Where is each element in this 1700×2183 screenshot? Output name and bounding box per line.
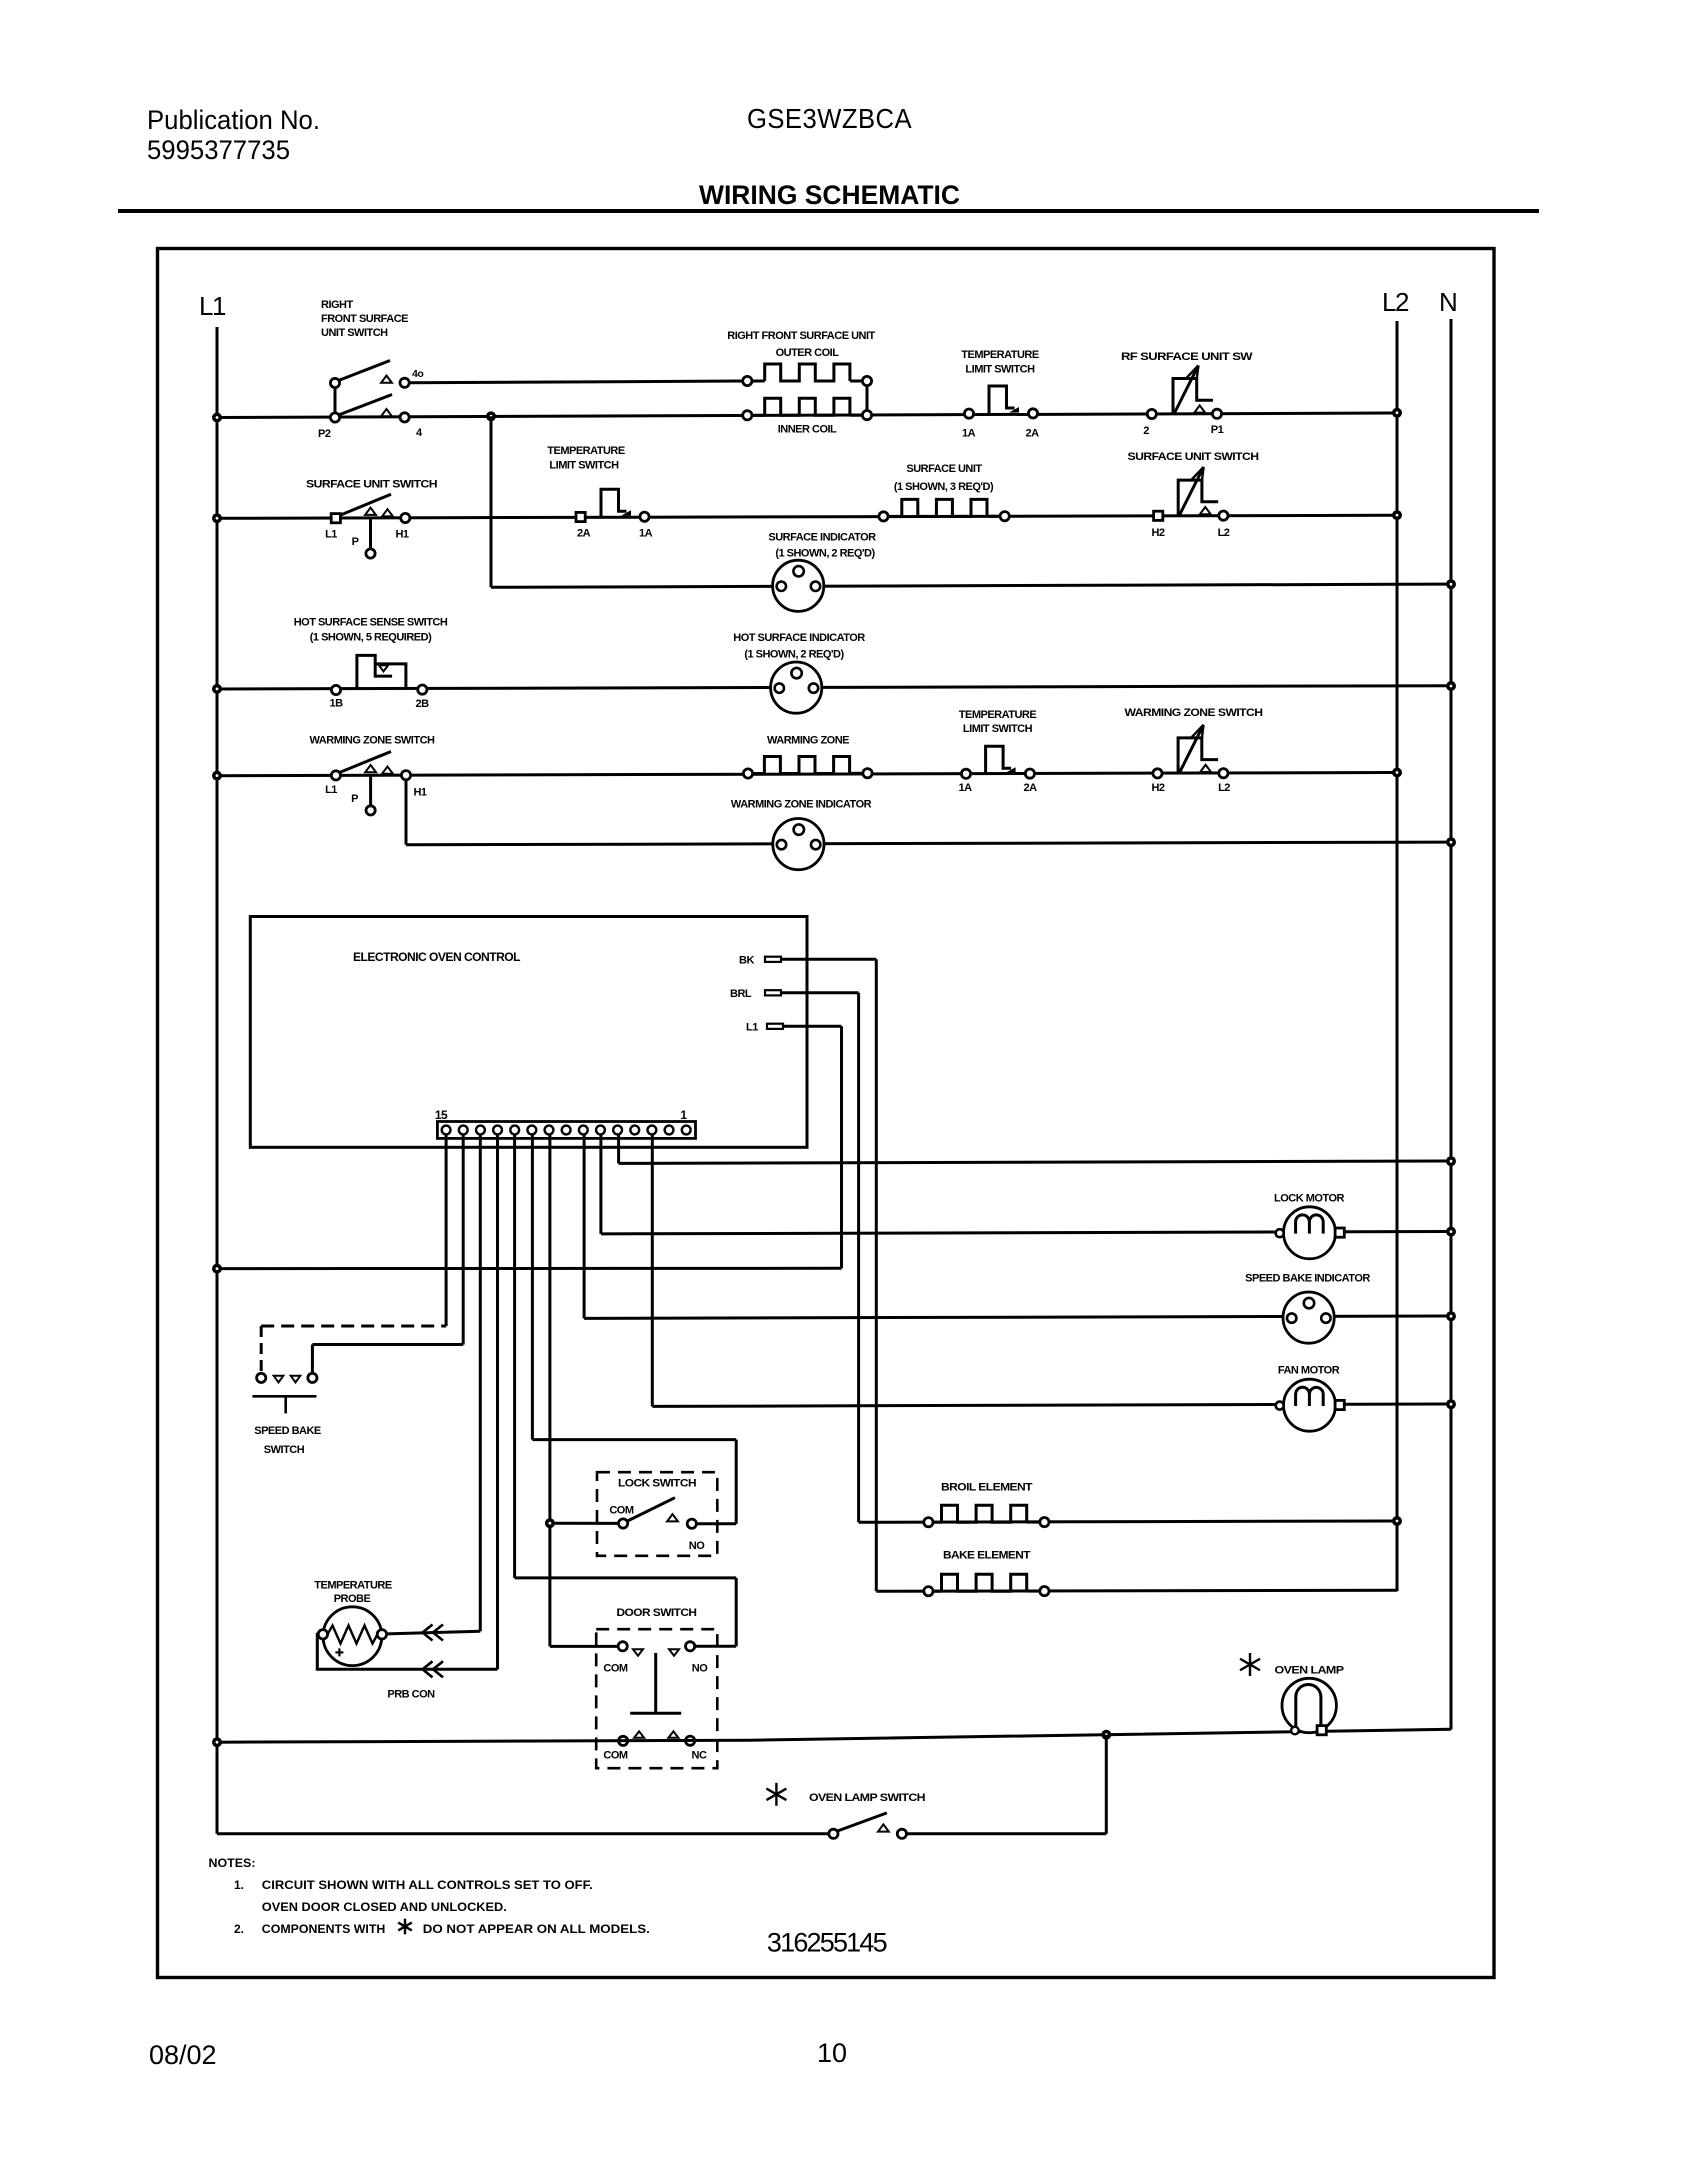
svg-text:L1: L1 (325, 529, 337, 541)
svg-text:TEMPERATURE: TEMPERATURE (961, 349, 1039, 361)
svg-text:L1: L1 (746, 1022, 758, 1034)
svg-text:Publication No.: Publication No. (147, 105, 320, 135)
svg-text:15: 15 (435, 1108, 448, 1122)
svg-text:BAKE ELEMENT: BAKE ELEMENT (943, 1550, 1031, 1562)
svg-text:LIMIT SWITCH: LIMIT SWITCH (963, 723, 1033, 735)
svg-text:OVEN DOOR CLOSED AND UNLOCKED.: OVEN DOOR CLOSED AND UNLOCKED. (262, 1900, 507, 1914)
svg-text:RIGHT FRONT SURFACE UNIT: RIGHT FRONT SURFACE UNIT (727, 330, 875, 342)
svg-text:2B: 2B (415, 698, 429, 710)
svg-text:SPEED BAKE INDICATOR: SPEED BAKE INDICATOR (1245, 1273, 1370, 1285)
svg-text:HOT SURFACE SENSE SWITCH: HOT SURFACE SENSE SWITCH (294, 617, 448, 629)
svg-text:HOT SURFACE INDICATOR: HOT SURFACE INDICATOR (733, 632, 865, 644)
svg-text:L1: L1 (199, 291, 226, 321)
svg-text:OVEN LAMP: OVEN LAMP (1275, 1665, 1344, 1677)
svg-text:FRONT SURFACE: FRONT SURFACE (321, 313, 408, 325)
svg-text:OUTER COIL: OUTER COIL (776, 347, 840, 359)
svg-text:5995377735: 5995377735 (147, 135, 290, 165)
svg-text:WARMING ZONE: WARMING ZONE (767, 735, 849, 747)
svg-text:(1 SHOWN, 5 REQUIRED): (1 SHOWN, 5 REQUIRED) (310, 632, 432, 644)
svg-text:CIRCUIT SHOWN WITH ALL CONTROL: CIRCUIT SHOWN WITH ALL CONTROLS SET TO O… (262, 1878, 593, 1892)
svg-text:P: P (351, 793, 358, 805)
svg-text:TEMPERATURE: TEMPERATURE (314, 1580, 392, 1592)
svg-text:SURFACE UNIT: SURFACE UNIT (906, 463, 982, 475)
svg-text:P1: P1 (1211, 424, 1224, 436)
svg-text:SURFACE INDICATOR: SURFACE INDICATOR (768, 532, 876, 544)
svg-text:PROBE: PROBE (334, 1593, 371, 1605)
svg-text:BRL: BRL (730, 988, 752, 1000)
svg-text:(1 SHOWN, 3 REQ'D): (1 SHOWN, 3 REQ'D) (894, 481, 994, 493)
svg-text:L2: L2 (1218, 782, 1230, 794)
svg-text:COMPONENTS WITH: COMPONENTS WITH (262, 1922, 386, 1936)
svg-text:PRB CON: PRB CON (387, 1689, 435, 1701)
svg-text:H1: H1 (413, 787, 426, 799)
svg-text:LOCK SWITCH: LOCK SWITCH (618, 1478, 697, 1490)
svg-text:WARMING ZONE SWITCH: WARMING ZONE SWITCH (1125, 707, 1264, 719)
svg-text:INNER COIL: INNER COIL (778, 424, 837, 436)
svg-text:COM: COM (609, 1505, 634, 1517)
svg-text:NOTES:: NOTES: (209, 1856, 256, 1870)
svg-text:RIGHT: RIGHT (321, 299, 354, 311)
svg-text:SURFACE UNIT SWITCH: SURFACE UNIT SWITCH (1128, 451, 1260, 463)
svg-text:DOOR SWITCH: DOOR SWITCH (617, 1607, 698, 1619)
svg-text:TEMPERATURE: TEMPERATURE (959, 709, 1037, 721)
svg-text:2A: 2A (577, 528, 591, 540)
svg-text:RF SURFACE UNIT SW: RF SURFACE UNIT SW (1121, 351, 1253, 363)
svg-text:L2: L2 (1218, 527, 1230, 539)
svg-text:10: 10 (817, 2038, 847, 2068)
svg-text:LIMIT SWITCH: LIMIT SWITCH (965, 364, 1035, 376)
svg-text:OVEN LAMP SWITCH: OVEN LAMP SWITCH (809, 1792, 926, 1804)
svg-text:1B: 1B (329, 698, 343, 710)
svg-text:(1 SHOWN, 2 REQ'D): (1 SHOWN, 2 REQ'D) (775, 548, 875, 560)
svg-text:BK: BK (739, 955, 754, 967)
svg-text:08/02: 08/02 (149, 2040, 217, 2070)
svg-text:1: 1 (680, 1108, 687, 1122)
svg-text:1A: 1A (639, 528, 653, 540)
svg-text:LOCK MOTOR: LOCK MOTOR (1274, 1193, 1345, 1205)
svg-text:ELECTRONIC OVEN CONTROL: ELECTRONIC OVEN CONTROL (353, 952, 520, 964)
svg-text:NO: NO (692, 1663, 708, 1675)
svg-text:L2: L2 (1382, 287, 1409, 317)
svg-text:SWITCH: SWITCH (264, 1444, 305, 1456)
svg-text:TEMPERATURE: TEMPERATURE (547, 445, 625, 457)
svg-text:1.: 1. (234, 1878, 244, 1892)
svg-text:BROIL ELEMENT: BROIL ELEMENT (941, 1482, 1033, 1494)
svg-text:P2: P2 (318, 428, 331, 440)
svg-text:H1: H1 (395, 529, 408, 541)
svg-text:P: P (352, 536, 359, 548)
svg-text:(1 SHOWN, 2 REQ'D): (1 SHOWN, 2 REQ'D) (744, 649, 844, 661)
svg-text:UNIT SWITCH: UNIT SWITCH (321, 327, 388, 339)
svg-text:L1: L1 (325, 784, 337, 796)
svg-text:WARMING ZONE SWITCH: WARMING ZONE SWITCH (310, 735, 435, 747)
svg-text:316255145: 316255145 (767, 1928, 887, 1958)
svg-text:LIMIT SWITCH: LIMIT SWITCH (549, 460, 619, 472)
svg-text:1A: 1A (958, 782, 972, 794)
svg-text:COM: COM (603, 1750, 628, 1762)
svg-text:WIRING SCHEMATIC: WIRING SCHEMATIC (699, 180, 960, 210)
svg-text:2: 2 (1143, 425, 1149, 437)
svg-text:H2: H2 (1151, 527, 1164, 539)
svg-text:GSE3WZBCA: GSE3WZBCA (747, 103, 912, 134)
svg-text:N: N (1439, 287, 1456, 317)
svg-text:H2: H2 (1151, 782, 1164, 794)
svg-text:COM: COM (603, 1663, 628, 1675)
svg-text:2.: 2. (234, 1922, 244, 1936)
svg-text:FAN MOTOR: FAN MOTOR (1278, 1365, 1340, 1377)
svg-text:4o: 4o (412, 368, 423, 380)
svg-text:SPEED BAKE: SPEED BAKE (254, 1425, 321, 1437)
svg-text:DO NOT APPEAR ON ALL MODELS.: DO NOT APPEAR ON ALL MODELS. (423, 1922, 650, 1936)
svg-text:NC: NC (692, 1750, 707, 1762)
svg-text:2A: 2A (1023, 782, 1037, 794)
svg-text:2A: 2A (1025, 428, 1039, 440)
svg-text:NO: NO (689, 1540, 705, 1552)
svg-text:WARMING ZONE INDICATOR: WARMING ZONE INDICATOR (731, 799, 872, 811)
svg-text:1A: 1A (962, 428, 976, 440)
svg-text:SURFACE UNIT SWITCH: SURFACE UNIT SWITCH (306, 479, 438, 491)
